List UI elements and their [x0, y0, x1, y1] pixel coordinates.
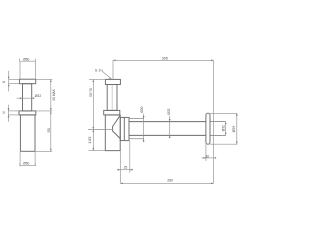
- outlet nut face line: [123, 117, 125, 140]
- flange top cap: [19, 79, 35, 84]
- collar thickness dim: [8, 105, 10, 122]
- svg-text:50÷70: 50÷70: [89, 88, 93, 97]
- elbow nut: [104, 110, 120, 115]
- flange thickness dim: [8, 71, 10, 92]
- inlet flange: [105, 79, 120, 84]
- 305 arrows: [113, 59, 116, 61]
- svg-text:15: 15: [2, 80, 5, 84]
- dia32 top arrows: [169, 119, 171, 122]
- neck dia dim line: [17, 97, 34, 99]
- dia30 leader: [143, 114, 145, 143]
- horizontal pipe top: [129, 121, 206, 123]
- bottom 280 dim: [120, 182, 213, 184]
- svg-text:305: 305: [162, 57, 168, 61]
- svg-text:Ø30: Ø30: [140, 106, 144, 112]
- top dia dim line: [20, 60, 36, 62]
- 305 dim line: [113, 59, 214, 61]
- 105 dim: [92, 130, 94, 151]
- dia59 dim: [210, 112, 237, 114]
- trap body cylinder: [20, 115, 35, 151]
- bottom dim extension lines: [19, 152, 21, 165]
- top dim extension lines: [19, 62, 21, 79]
- inlet pipe inner line: [111, 85, 113, 111]
- right 95 dim: [50, 111, 52, 151]
- 25 dim arrows: [118, 169, 121, 171]
- collar step: [19, 111, 36, 115]
- 305 left extension: [112, 60, 114, 79]
- outlet centerline: [88, 129, 113, 131]
- dia32 leader: [169, 116, 171, 138]
- svg-text:95: 95: [47, 128, 51, 132]
- 45max arrows: [50, 79, 52, 82]
- svg-text:Ø59: Ø59: [232, 126, 236, 133]
- dia59 arrows: [236, 113, 238, 116]
- svg-text:Ø50: Ø50: [23, 58, 29, 62]
- svg-text:G 1¼: G 1¼: [95, 68, 103, 72]
- right 45MAX dim: [50, 79, 52, 111]
- 50-70 arrows: [92, 79, 94, 82]
- svg-text:30: 30: [206, 154, 210, 158]
- wall rosette flange: [206, 113, 210, 144]
- svg-text:Ø50: Ø50: [23, 162, 29, 166]
- pipe stub right of rosette bottom: [210, 134, 226, 136]
- 30 dim arrows: [203, 157, 206, 159]
- outlet sleeve top: [129, 118, 144, 120]
- 95 arrows: [50, 111, 52, 114]
- elbow body cylinder: [105, 115, 120, 151]
- pipe stub right of rosette top: [210, 121, 226, 123]
- svg-text:Ø32: Ø32: [35, 94, 42, 98]
- 105 arrows: [92, 130, 94, 133]
- 280 arrows: [120, 183, 123, 185]
- svg-text:25: 25: [124, 166, 128, 170]
- arrowheads: [8, 59, 238, 184]
- 30 dim: [205, 144, 207, 161]
- svg-text:105: 105: [87, 136, 92, 144]
- dia32 right arrows: [225, 122, 227, 125]
- neck dim arrows: [20, 97, 23, 99]
- svg-text:280: 280: [167, 179, 173, 183]
- 25 dim: [119, 151, 121, 183]
- svg-text:45 MAX: 45 MAX: [52, 88, 56, 101]
- G leader: [103, 72, 112, 79]
- wall line: [213, 60, 215, 183]
- G leader arrow: [109, 78, 112, 80]
- dia32 right dim: [225, 122, 227, 136]
- bottom dia dim line: [20, 165, 35, 167]
- svg-text:15: 15: [2, 111, 5, 115]
- svg-text:Ø32: Ø32: [221, 125, 225, 131]
- svg-text:Ø32: Ø32: [167, 108, 171, 114]
- collar thickness arrows: [8, 108, 10, 111]
- dia30 arrows: [143, 116, 145, 119]
- flange thickness arrows: [8, 77, 10, 80]
- inlet vertical pipe: [107, 85, 117, 111]
- neck tube: [23, 84, 32, 111]
- outlet nut: [120, 117, 129, 140]
- outlet sleeve bottom: [129, 138, 144, 140]
- 50-70 dim: [92, 79, 94, 129]
- outlet cone: [113, 115, 121, 138]
- horizontal pipe bottom: [129, 134, 206, 136]
